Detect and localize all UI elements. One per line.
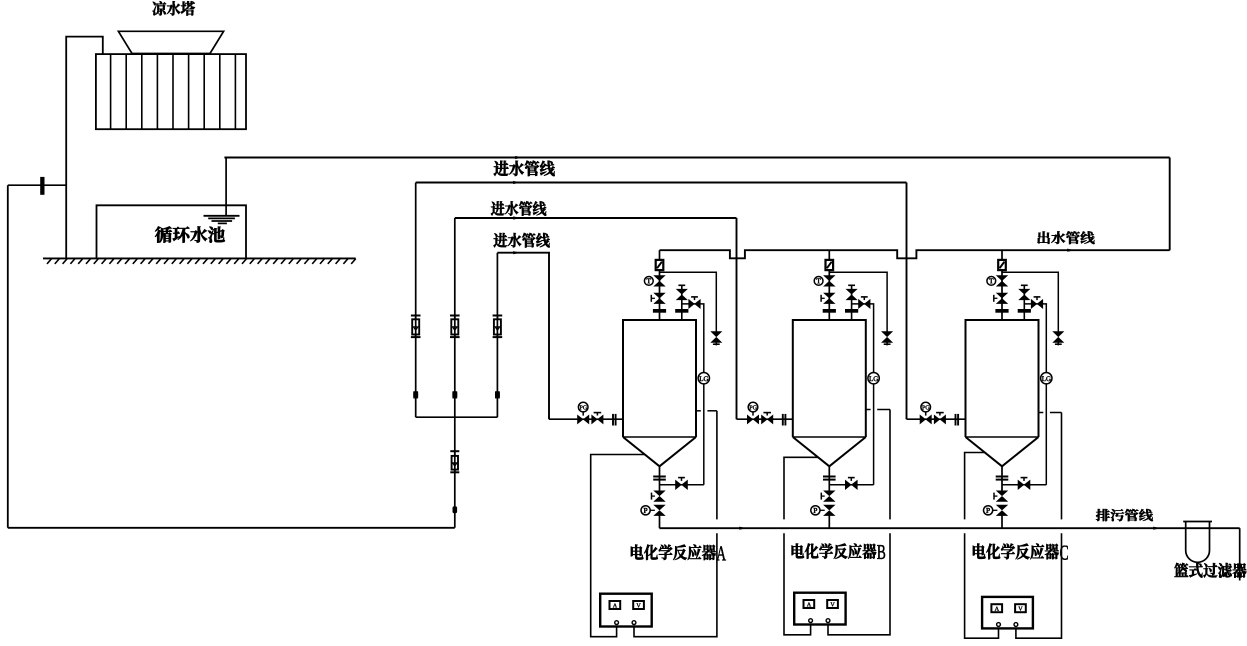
reactor B drain pressure tap circle P xyxy=(811,506,820,515)
reactor A output terminals xyxy=(615,621,636,625)
reactor C level-gauge branch valve xyxy=(1032,297,1043,308)
reactor C vent valve 2 xyxy=(994,293,1007,303)
reactor B drain pipe to blowdown header xyxy=(828,516,830,529)
pipe: manifold drop xyxy=(454,417,456,528)
electrode lead from left terminal to reactor A cone xyxy=(591,455,645,637)
basket filter xyxy=(1183,522,1212,563)
reactor A nozzle-2 flange xyxy=(675,309,688,313)
reactor B output terminals xyxy=(809,619,830,623)
reactor B level-gauge lower pipe xyxy=(873,384,875,485)
reactor C inlet valve 1 xyxy=(920,416,931,423)
reactor A nozzle-2 pipe xyxy=(681,286,683,320)
reactor C drain flange pair xyxy=(996,477,1009,480)
electrode lead from side nozzle to power terminal (reactor B) xyxy=(828,410,890,635)
reactor B level-gauge bottom branch xyxy=(829,484,873,486)
reactor C label 电化学反应器C xyxy=(973,543,1068,559)
reactor A vent valve 2 xyxy=(651,293,664,303)
reactor C drain pipe to blowdown header xyxy=(1001,516,1003,529)
reactor C drain valve 2 xyxy=(993,505,1007,515)
reactor C nozzle-2 pipe xyxy=(1023,286,1025,320)
reactor C drain pipe upper xyxy=(1001,466,1003,491)
reactor C inlet pressure gauge PG xyxy=(921,402,931,415)
reactor C nozzle-2 valve xyxy=(1020,285,1029,299)
reactor B drain valve 1 xyxy=(821,491,833,501)
reactor B inlet flange pair xyxy=(783,414,786,426)
reactor C tank xyxy=(966,320,1039,437)
rotameter FI-3 xyxy=(493,316,503,338)
blowdown label 排污管线 xyxy=(1096,509,1153,521)
inlet line 2 label 进水管线 xyxy=(491,201,546,216)
flow arrow on outlet header xyxy=(1067,249,1075,252)
flow arrow on inlet line 3 xyxy=(513,251,521,254)
reactor A ammeter xyxy=(610,601,621,609)
reactor A drain flange pair xyxy=(653,477,666,480)
reactor A riser sight glass xyxy=(656,260,664,270)
reactor C riser sight glass xyxy=(998,260,1006,270)
reactor C level gauge circle LG xyxy=(1041,373,1052,384)
reactor A tank xyxy=(623,320,696,437)
pipe: inlet 2 downcomer to reactor B xyxy=(736,218,738,419)
reactor A drain pipe to blowdown header xyxy=(659,516,661,529)
reactor B drain pipe upper xyxy=(828,466,830,491)
reactor C inlet flange pair xyxy=(956,414,959,426)
pipe: inlet 1 downcomer to reactor C xyxy=(906,183,908,420)
inlet line 2 (to reactor B) xyxy=(455,217,737,219)
outlet header line with crossover jogs xyxy=(660,250,1170,258)
reactor B nozzle-2 pipe xyxy=(851,286,853,320)
reactor B vent valve 1 xyxy=(825,276,834,286)
reactor B drain flange pair xyxy=(823,477,836,480)
reactor C voltmeter xyxy=(1015,604,1026,612)
reactor C inlet valve 2 xyxy=(935,413,946,423)
reactor B tank xyxy=(793,320,866,437)
pipe: feed column 2 xyxy=(454,218,456,417)
reactor B label 电化学反应器B xyxy=(792,543,886,559)
cooling tower riser pipe xyxy=(66,37,103,259)
reactor A inlet valve 2 xyxy=(592,413,603,423)
reactor B level-gauge top branch xyxy=(852,304,874,373)
flow arrow on inlet line 1 xyxy=(513,181,521,184)
reactor A vent riser pipe xyxy=(659,250,661,320)
reactor A label 电化学反应器A xyxy=(631,545,726,561)
reactor A drain valve 1 xyxy=(652,491,664,501)
reactor B sample valve (capped) xyxy=(883,332,892,346)
reactor C vent valve 1 xyxy=(998,276,1007,286)
valve below FI-4 xyxy=(453,506,458,513)
reactor A level-gauge top branch xyxy=(682,304,704,373)
electrode lead from side nozzle to power terminal (reactor A) xyxy=(634,411,717,637)
reactor B vent riser pipe xyxy=(828,250,830,320)
reactor A level-gauge bottom valve xyxy=(676,478,687,489)
reactor A voltmeter xyxy=(633,601,644,609)
reactor A nozzle-2 valve xyxy=(678,285,687,299)
reactor A sample valve (capped) xyxy=(712,332,721,346)
blowdown header 排污管线 xyxy=(660,527,1240,529)
electrode lead from left terminal to reactor C cone xyxy=(965,453,999,639)
reactor B inlet pipe xyxy=(737,418,793,420)
valve on feed column 3 xyxy=(495,391,500,398)
reactor A inlet pipe xyxy=(549,418,623,420)
reactor A cone bottom xyxy=(623,437,696,466)
reactor B ammeter xyxy=(804,600,815,608)
pipe: left suction header down xyxy=(7,185,9,528)
reactor A thermometer circle T xyxy=(644,277,653,286)
reactor B riser sight glass xyxy=(826,260,834,270)
pipe: pool suction branch xyxy=(8,184,66,186)
reactor C vent nozzle flange xyxy=(995,309,1008,313)
reactor C cone bottom xyxy=(966,437,1039,466)
outlet header label 出水管线 xyxy=(1037,231,1094,244)
reactor B sample branch pipe xyxy=(829,272,887,331)
reactor B nozzle-2 flange xyxy=(845,309,858,313)
reactor C power supply box xyxy=(982,597,1033,629)
reactor A level-gauge bottom branch xyxy=(660,484,704,486)
reactor B inlet valve 2 xyxy=(762,413,773,423)
outlet return line (to pool) xyxy=(224,157,1169,159)
pipe: blowdown outfall drop xyxy=(1239,528,1241,580)
reactor A drain pipe upper xyxy=(659,466,661,491)
reactor C ammeter xyxy=(991,604,1002,612)
reactor A inlet flange pair xyxy=(613,414,616,426)
reactor A inlet pressure gauge PG xyxy=(578,402,588,415)
ground line with hatching xyxy=(43,258,356,264)
reactor B thermometer circle T xyxy=(814,277,823,286)
reactor B inlet pressure gauge PG xyxy=(748,402,758,415)
inlet line 3 (to reactor A) xyxy=(497,253,549,420)
pool label 循环水池 xyxy=(155,226,225,242)
reactor B side nozzle line xyxy=(866,409,890,411)
reactor A drain pressure tap circle P xyxy=(641,506,650,515)
reactor A level gauge circle LG xyxy=(698,373,709,384)
flow arrow on blowdown header xyxy=(739,527,747,530)
cooling tower label 凉水塔 xyxy=(152,1,194,15)
reactor B vent valve 2 xyxy=(821,293,834,303)
flow arrow on blowdown header 2 xyxy=(1153,527,1161,530)
reactor B drain valve 2 xyxy=(820,505,834,515)
pipe: feed column 1 xyxy=(415,183,417,418)
reactor B level-gauge bottom valve xyxy=(846,478,857,489)
reactor A power supply box xyxy=(600,594,652,627)
flow arrow on outlet return line xyxy=(515,156,523,159)
cooling tower fill body xyxy=(96,54,246,129)
reactor A vent valve 1 xyxy=(655,276,664,286)
pipe: bottom suction header xyxy=(8,527,455,529)
reactor A vent nozzle flange xyxy=(653,309,666,313)
reactor A drain valve 2 xyxy=(650,505,664,515)
reactor B vent nozzle flange xyxy=(823,309,836,313)
reactor B inlet valve 1 xyxy=(748,416,759,423)
reactor A level-gauge branch valve xyxy=(689,297,700,308)
reactor A sample branch pipe xyxy=(660,272,717,331)
electrode lead from left terminal to reactor B cone xyxy=(784,457,818,635)
inlet line 1 label 进水管线 xyxy=(494,161,555,177)
feed manifold xyxy=(416,416,498,418)
reactor B voltmeter xyxy=(827,600,838,608)
reactor C drain valve 1 xyxy=(994,491,1006,501)
pipe: feed column 3 xyxy=(496,253,498,418)
reactor C level-gauge top branch xyxy=(1024,304,1046,373)
reactor C level-gauge bottom branch xyxy=(1002,484,1046,486)
reactor C sample branch pipe xyxy=(1002,272,1058,331)
cooling tower fan stack xyxy=(118,31,223,53)
inlet line 3 label 进水管线 xyxy=(493,233,549,248)
inlet line 1 (to reactor C) xyxy=(416,182,907,184)
valve on feed column 2 xyxy=(452,391,457,398)
reactor A level-gauge lower pipe xyxy=(703,384,705,485)
reactor B level gauge circle LG xyxy=(868,373,879,384)
rotameter FI-1 xyxy=(411,316,421,338)
reactor C nozzle-2 flange xyxy=(1018,309,1031,313)
reactor B nozzle-2 valve xyxy=(847,285,856,299)
basket filter label 篮式过滤器 xyxy=(1174,563,1246,578)
reactor B level-gauge branch valve xyxy=(859,297,870,308)
valve on suction branch xyxy=(40,177,44,195)
reactor C level-gauge lower pipe xyxy=(1045,384,1047,485)
reactor A side nozzle line xyxy=(696,410,717,412)
reactor C drain pressure tap circle P xyxy=(984,506,993,515)
reactor A inlet valve 1 xyxy=(578,416,589,423)
pipe: outlet return right downcomer xyxy=(1169,158,1171,251)
reactor C output terminals xyxy=(997,623,1018,627)
reactor C vent riser pipe xyxy=(1001,250,1003,320)
flow arrow on inlet line 2 xyxy=(513,216,521,219)
reactor C inlet pipe xyxy=(907,418,966,420)
rotameter FI-4 xyxy=(450,451,459,472)
electrode lead from side nozzle to power terminal (reactor C) xyxy=(1016,413,1062,639)
pipe: pool return riser xyxy=(225,158,227,216)
reactor C side nozzle line xyxy=(1039,412,1062,414)
circulating water pool xyxy=(97,205,247,258)
reactor B power supply box xyxy=(794,593,845,625)
reactor B cone bottom xyxy=(793,437,866,466)
rotameter FI-2 xyxy=(450,316,460,338)
valve on feed column 1 xyxy=(413,391,418,398)
reactor C sample valve (capped) xyxy=(1054,332,1063,346)
reactor C level-gauge bottom valve xyxy=(1018,478,1029,489)
water surface symbol xyxy=(204,216,240,224)
reactor C thermometer circle T xyxy=(987,277,996,286)
